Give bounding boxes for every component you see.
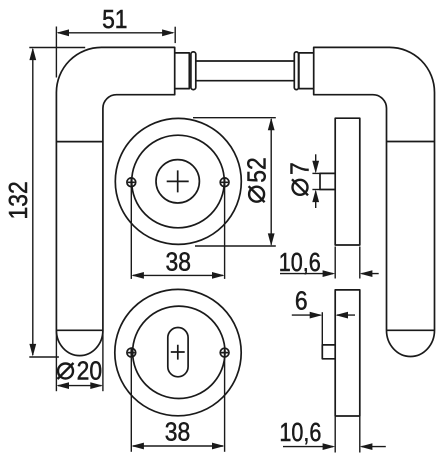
svg-text:38: 38 <box>165 248 190 277</box>
spindle <box>196 60 294 62</box>
upper rosette spindle cross <box>167 170 189 192</box>
left handle outline <box>56 47 174 355</box>
right handle cap tangent line <box>387 329 435 331</box>
dim 6 extension line <box>321 312 323 344</box>
arrowheads dim 6 <box>310 312 323 319</box>
upper rosette right screw <box>220 178 229 187</box>
side view lower rosette profile <box>335 290 360 416</box>
svg-text:132: 132 <box>5 181 34 219</box>
dim 10,6 upper extension lines <box>334 247 336 279</box>
dim 38 upper line <box>133 274 223 276</box>
dim D52 extension lines <box>193 117 276 119</box>
lower rosette inner circle <box>133 306 225 398</box>
dim 38 upper extension lines <box>130 184 132 279</box>
dim 51 line <box>58 32 173 34</box>
dim 132 extension lines <box>29 47 85 49</box>
side view lower key tab <box>322 345 335 359</box>
arrowheads dim 38 lower <box>131 443 144 450</box>
svg-text:51: 51 <box>102 6 127 35</box>
arrowheads dim 51 <box>56 29 69 36</box>
dim 38 lower extension lines <box>130 358 132 452</box>
dim D20 extension lines <box>55 330 57 391</box>
right handle grip tangent line <box>387 141 435 143</box>
svg-text:6: 6 <box>295 287 308 316</box>
svg-text:38: 38 <box>165 418 190 447</box>
lower rosette left screw <box>127 348 136 357</box>
dim 10,6 upper arrow lines <box>280 273 333 275</box>
dim D7 ticks <box>312 172 320 174</box>
side view upper spindle tab <box>320 173 335 189</box>
diameter symbol for D7 <box>293 180 308 195</box>
diameter symbol for D52 <box>249 187 264 202</box>
upper rosette boss circle <box>156 160 199 203</box>
svg-text:10,6: 10,6 <box>279 248 321 277</box>
arrowheads dim D52 <box>268 118 275 131</box>
arrowheads dim 10,6 upper <box>323 270 336 277</box>
lower rosette right screw <box>220 348 229 357</box>
upper rosette outer circle <box>115 118 241 244</box>
side view upper rosette profile <box>335 118 360 245</box>
svg-text:7: 7 <box>286 162 315 175</box>
lower rosette keyhole oval <box>168 328 188 377</box>
svg-text:10,6: 10,6 <box>279 418 321 447</box>
dim 6 arrow lines <box>292 314 321 316</box>
svg-text:52: 52 <box>243 157 272 182</box>
upper rosette inner circle <box>132 135 225 228</box>
arrowheads dim D7 <box>312 161 319 174</box>
dim 51 extension lines <box>55 27 57 78</box>
dim D20 line <box>58 385 102 387</box>
svg-text:20: 20 <box>77 357 102 386</box>
dim 10,6 lower extension lines <box>334 417 336 453</box>
lower rosette outer circle <box>115 289 241 415</box>
dim 38 lower line <box>133 445 223 447</box>
left handle grip tangent line <box>56 141 103 143</box>
arrowheads dim 132 <box>29 48 36 61</box>
arrowheads dim D20 <box>56 382 69 389</box>
left handle cap tangent line <box>56 329 103 331</box>
lower rosette cross <box>171 345 185 360</box>
right handle collar <box>294 52 298 90</box>
right handle outline <box>314 47 435 356</box>
right handle neck <box>299 53 314 89</box>
arrowheads dim 10,6 lower <box>323 443 336 450</box>
dim D7 arrows lines <box>315 154 317 171</box>
dim 10,6 lower arrow lines <box>283 446 333 448</box>
dim D52 line <box>270 119 272 245</box>
dim 132 line <box>32 49 34 355</box>
diameter symbol for D20 <box>58 364 73 379</box>
left handle neck <box>175 53 190 89</box>
left handle collar <box>191 52 196 90</box>
arrowheads dim 38 upper <box>131 272 144 279</box>
upper rosette left screw <box>127 178 136 187</box>
